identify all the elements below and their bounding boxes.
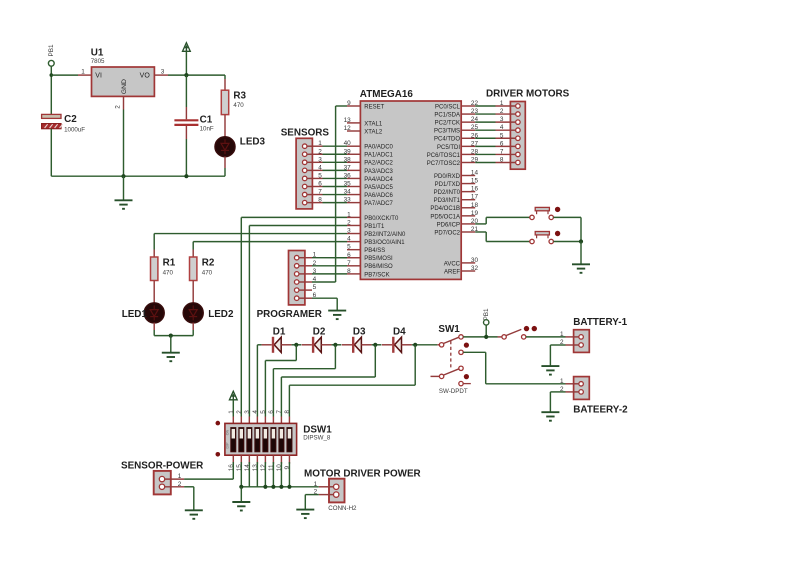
wire PD7 seg1 [475, 231, 486, 233]
diode D1 [273, 337, 281, 353]
wire sensor-power gnd seg2 [193, 487, 195, 511]
SW2 pole lead [498, 336, 502, 338]
button 2 indicator [555, 231, 560, 236]
R2 top pin [192, 250, 194, 258]
R1 top pin [153, 250, 155, 258]
U1 VO pin name [140, 73, 151, 80]
svg-text:PA2/ADC2: PA2/ADC2 [364, 161, 393, 167]
SW2 indicator a [524, 326, 529, 331]
svg-text:470: 470 [163, 269, 174, 276]
diode D3 [353, 337, 361, 353]
DSW1 marker dot bottom [216, 452, 221, 457]
resistor R2 [190, 257, 197, 281]
wire VO node down to C1 [185, 75, 187, 107]
DSW1 DIP text [226, 442, 230, 449]
DRIVER MOTORS pin 8 lead [496, 161, 516, 163]
DRIVER MOTORS pin 6 number [500, 140, 504, 147]
svg-text:13: 13 [344, 117, 352, 124]
SENSORS pin 5 circle [302, 176, 307, 181]
wire PB1 to C2 top [50, 67, 52, 115]
DRIVER MOTORS pin 7 circle [516, 152, 521, 157]
wire R2 to LED2 [192, 281, 194, 304]
MOTOR POWER pin1 circle [334, 484, 339, 489]
ATMEGA16 pin name PD7/OC2 [434, 230, 460, 236]
MOTOR POWER pin1 number [314, 481, 318, 488]
C1 refdes [200, 115, 213, 126]
DSW1 bottom pin 12 stub [264, 455, 266, 464]
SW1 value SW-DPDT [439, 388, 468, 395]
junction PB1 node [50, 73, 54, 77]
ATMEGA16 pin 8 (PB7/SCK) stub [347, 273, 360, 275]
ATMEGA16 pin 13 (XTAL1) stub [347, 122, 360, 124]
D1 anode lead [262, 344, 272, 346]
SW2 indicator b [532, 326, 537, 331]
power flag VCC top [183, 43, 191, 52]
svg-text:7: 7 [347, 260, 351, 267]
D4 refdes [393, 326, 406, 337]
svg-text:SENSOR-POWER: SENSOR-POWER [121, 460, 203, 471]
wire PB0 horizontal [241, 216, 347, 218]
ATMEGA16 pin 20 (PD6/ICP) stub [461, 223, 475, 225]
U1 pin 1 stub [78, 74, 92, 76]
BATTERY-1 title [573, 317, 627, 328]
DSW1 pin 12 number [260, 464, 267, 472]
svg-text:PC7/TOSC2: PC7/TOSC2 [427, 161, 461, 167]
svg-text:1: 1 [81, 68, 85, 75]
ground power section [115, 200, 133, 209]
svg-text:PD4/OC1B: PD4/OC1B [430, 206, 460, 212]
svg-text:1: 1 [347, 211, 351, 218]
wire PROGRAMER6 seg2 [336, 298, 338, 310]
wire SENSORS 7 to PA6 [323, 194, 348, 196]
SW1 mechanical link [450, 341, 452, 368]
ATMEGA16 pin 20 number [471, 218, 479, 225]
terminal PB1b label [483, 308, 490, 321]
power flag DSW [229, 391, 237, 400]
terminal PB1 [48, 60, 54, 66]
U1 pin 3 stub [154, 74, 168, 76]
PROGRAMER pin 6 circle [294, 296, 299, 301]
SW1 throw A circle [459, 335, 463, 339]
svg-text:18: 18 [471, 202, 479, 209]
LED1 refdes [122, 309, 148, 320]
terminal PB1 label [48, 44, 55, 57]
U1 pin 1 number [81, 68, 85, 75]
wire diode link 4 [412, 344, 437, 346]
button 1 indicator [555, 207, 560, 212]
svg-text:5: 5 [347, 244, 351, 251]
svg-text:PC6/TOSC1: PC6/TOSC1 [427, 153, 461, 159]
ATMEGA16 pin name PD5/OC1A [430, 214, 460, 220]
ATMEGA16 pin 40 (PA0/ADC0) stub [347, 145, 360, 147]
svg-text:3: 3 [318, 156, 322, 163]
svg-text:39: 39 [344, 148, 352, 155]
SENSOR-POWER pin1 number [178, 473, 182, 480]
ATMEGA16 pin name PD4/OC1B [430, 206, 460, 212]
wire battery2 gnd seg2 [549, 392, 551, 412]
SENSORS pin 5 number [318, 172, 322, 179]
ATMEGA16 pin 35 number [344, 181, 352, 188]
LED ground rail [154, 335, 193, 337]
svg-text:BATEERY-2: BATEERY-2 [573, 405, 628, 416]
DSW1 bottom pin 15 stub [240, 455, 242, 464]
SENSORS pin 1 circle [302, 144, 307, 149]
svg-text:5: 5 [500, 132, 504, 139]
wire PD6 seg3 [486, 216, 530, 218]
svg-text:4: 4 [318, 164, 322, 171]
connector SENSORS body [296, 138, 312, 209]
ATMEGA16 pin 16 number [471, 186, 479, 193]
svg-text:DIPSW_8: DIPSW_8 [303, 435, 331, 442]
ground battery1 [541, 366, 559, 375]
DRIVER MOTORS pin 6 lead [496, 145, 516, 147]
svg-text:3: 3 [161, 68, 165, 75]
D3 refdes [353, 326, 366, 337]
svg-text:3: 3 [244, 410, 251, 414]
wire C2 to rail [50, 129, 52, 177]
svg-text:D1: D1 [273, 326, 286, 337]
junction bus pin 9 [287, 485, 291, 489]
ATMEGA16 pin 29 number [471, 156, 479, 163]
ATMEGA16 pin 33 (PA7/ADC7) stub [347, 202, 360, 204]
DRIVER MOTORS pin 1 lead [496, 105, 516, 107]
DRIVER MOTORS pin 8 circle [516, 160, 521, 165]
D2 cathode lead [321, 344, 331, 346]
wire PROGRAMER1 to PB5 [312, 257, 347, 259]
PROGRAMER pin 3 circle [294, 272, 299, 277]
BATTERY-1 pin1 lead [566, 336, 580, 338]
DSW1 value [303, 435, 331, 442]
svg-text:30: 30 [471, 257, 479, 264]
BATTERY-1 pin1 number [560, 331, 564, 338]
wire battery1 gnd seg1 [550, 344, 565, 346]
PROGRAMER pin 2 number [313, 260, 317, 267]
ATMEGA16 pin 3 number [347, 228, 351, 235]
svg-text:PA0/ADC0: PA0/ADC0 [364, 145, 393, 151]
ATMEGA16 pin name PC6/TOSC1 [427, 153, 461, 159]
R3 value [233, 102, 244, 109]
R1 value [163, 269, 174, 276]
svg-text:SENSORS: SENSORS [281, 127, 330, 138]
wire SENSORS 8 to PA7 [323, 202, 348, 204]
svg-text:PA7/ADC7: PA7/ADC7 [364, 201, 393, 207]
wire LED2 to rail [192, 330, 194, 336]
svg-text:GND: GND [121, 79, 128, 94]
wire stair 4 column [288, 385, 290, 416]
regulator U1 body [92, 67, 155, 96]
D3 anode lead [342, 344, 352, 346]
DSW1 pin 15 number [236, 464, 243, 472]
junction rail-U1gnd [121, 174, 125, 178]
ATMEGA16 pin 19 number [471, 210, 479, 217]
DSW1 top pin 6 stub [272, 417, 274, 424]
SENSORS pin 4 number [318, 164, 322, 171]
DSW1 pin 9 number [284, 465, 291, 469]
ATMEGA16 pin 4 (PB3/OC0/AIN1) stub [347, 241, 360, 243]
svg-text:14: 14 [244, 464, 251, 472]
svg-text:3: 3 [347, 228, 351, 235]
C1 top pin [185, 107, 187, 119]
SENSORS pin 6 number [318, 181, 322, 188]
ATMEGA16 pin name PD3/INT1 [434, 198, 461, 204]
ATMEGA16 pin name PC7/TOSC2 [427, 161, 461, 167]
PROGRAMER pin 4 circle [294, 280, 299, 285]
capacitor C2 plate + [42, 114, 61, 118]
ground rail top-left [51, 175, 225, 177]
svg-text:LED2: LED2 [208, 309, 234, 320]
svg-text:R3: R3 [233, 90, 246, 101]
DRIVER MOTORS pin 4 lead [496, 129, 516, 131]
ATMEGA16 pin 23 (PC1/SDA) stub [461, 113, 475, 115]
ATMEGA16 pin 30 number [471, 257, 479, 264]
svg-text:2: 2 [500, 108, 504, 115]
svg-text:470: 470 [202, 269, 213, 276]
SW1 indicator 2 [464, 374, 469, 379]
ATMEGA16 pin 34 number [344, 189, 352, 196]
ATMEGA16 pin name PB2/INT2/AIN0 [364, 232, 406, 238]
ATMEGA16 pin 1 number [347, 211, 351, 218]
PROGRAMER pin 2 circle [294, 264, 299, 269]
wire sensor-power gnd seg1 [184, 486, 194, 488]
svg-text:17: 17 [471, 194, 479, 201]
DSW1 top pin 7 stub [280, 417, 282, 424]
svg-text:2: 2 [236, 410, 243, 414]
wire motor gnd seg1 [305, 494, 319, 496]
wire R2 vertical [192, 242, 194, 250]
DSW1 pin 2 number [236, 410, 243, 414]
ground battery2 [541, 412, 559, 421]
ATMEGA16 pin 27 number [471, 140, 479, 147]
svg-text:PB1/T1: PB1/T1 [364, 224, 385, 230]
wire stair 4 left [289, 384, 415, 386]
ATMEGA16 pin name PD1/TXD [435, 182, 461, 188]
svg-text:1: 1 [318, 140, 322, 147]
DSW1 pin 4 number [252, 410, 259, 414]
ATMEGA16 pin 37 (PA3/ADC3) stub [347, 169, 360, 171]
svg-text:CONN-H2: CONN-H2 [328, 505, 357, 512]
ATMEGA16 pin 24 (PC2/TCK) stub [461, 121, 475, 123]
wire R1 to LED1 [153, 281, 155, 304]
svg-text:11: 11 [268, 464, 275, 471]
ATMEGA16 pin name PB4/SS [364, 248, 385, 254]
wire PD6 seg2 [485, 217, 487, 224]
SENSORS pin 6 lead [307, 186, 323, 188]
wire PD7 seg3 [486, 241, 530, 243]
svg-text:PB7/SCK: PB7/SCK [364, 272, 389, 278]
wire PC3 to motors 4 [475, 129, 495, 131]
DRIVER MOTORS pin 5 circle [516, 136, 521, 141]
resistor R3 [221, 90, 228, 114]
junction diode node 3 [373, 343, 377, 347]
ground PROGRAMER [328, 311, 346, 320]
wire PROGRAMER2 to PB6 [312, 265, 347, 267]
PROGRAMER pin 2 lead [299, 265, 312, 267]
svg-text:34: 34 [344, 189, 352, 196]
LED LED1 [144, 303, 164, 323]
SENSORS pin 8 circle [302, 200, 307, 205]
SENSOR-POWER title [121, 460, 203, 471]
ATMEGA16 pin 12 (XTAL2) stub [347, 130, 360, 132]
ATMEGA16 pin name PA6/ADC6 [364, 193, 393, 199]
wire stair 1 left [265, 360, 296, 362]
capacitor C1 plates [174, 120, 198, 125]
wire battery1 gnd seg2 [549, 345, 551, 366]
DSW1 pin 6 number [268, 410, 275, 414]
SENSORS pin 4 circle [302, 168, 307, 173]
svg-text:14: 14 [471, 170, 479, 177]
ATMEGA16 pin 23 number [471, 108, 479, 115]
DSW1 switch slots [231, 428, 292, 452]
SENSORS pin 2 circle [302, 152, 307, 157]
ground LEDs [162, 353, 180, 362]
ATMEGA16 pin 25 number [471, 124, 479, 131]
DRIVER MOTORS title [486, 89, 570, 100]
SENSORS pin 7 circle [302, 192, 307, 197]
ATMEGA16 pin name PA1/ADC1 [364, 153, 393, 159]
ATMEGA16 pin name XTAL2 [364, 129, 383, 135]
ATMEGA16 pin name PA0/ADC0 [364, 145, 393, 151]
DRIVER MOTORS pin 1 number [500, 100, 504, 107]
svg-text:33: 33 [344, 197, 352, 204]
junction diode node 4 [413, 343, 417, 347]
wire stair 1 down [295, 345, 297, 361]
svg-text:10nF: 10nF [200, 125, 214, 132]
BATEERY-2 pin2 lead [566, 391, 580, 393]
DRIVER MOTORS pin 4 number [500, 124, 504, 131]
wire DSW10 down [280, 462, 282, 487]
svg-text:5: 5 [260, 410, 267, 414]
wire buttons vertical [580, 217, 582, 241]
ATMEGA16 pin name PA3/ADC3 [364, 169, 393, 175]
DRIVER MOTORS pin 4 circle [516, 128, 521, 133]
wire PB3 horizontal [193, 241, 347, 243]
DRIVER MOTORS pin 3 lead [496, 121, 516, 123]
SENSOR-POWER pin1 lead [165, 478, 185, 480]
ATMEGA16 pin 6 (PB5/MOSI) stub [347, 257, 360, 259]
svg-text:LED3: LED3 [240, 137, 266, 148]
svg-text:DIP: DIP [226, 442, 230, 449]
LED1 bottom pin [153, 323, 155, 330]
wire DSW14 down [248, 462, 250, 487]
ground buttons [572, 264, 590, 273]
svg-text:10: 10 [276, 464, 283, 472]
U1 refdes [91, 48, 104, 59]
DSW1 top pin 4 stub [256, 417, 258, 424]
wire PROGRAMER3 to PB7 [312, 273, 347, 275]
wire bus to ground [240, 487, 242, 502]
DRIVER MOTORS pin 6 circle [516, 144, 521, 149]
svg-text:PD6/ICP: PD6/ICP [437, 222, 460, 228]
wire PD7 seg2 [485, 232, 487, 242]
ATMEGA16 pin 8 number [347, 268, 351, 275]
ATMEGA16 pin name PB5/MOSI [364, 256, 393, 262]
wire SENSORS 6 to PA5 [323, 186, 348, 188]
DRIVER MOTORS pin 1 circle [516, 104, 521, 109]
wire LED1 to rail [153, 330, 155, 336]
svg-text:1: 1 [178, 473, 182, 480]
ATMEGA16 pin name PB0/XCK/T0 [364, 216, 399, 222]
wire DSW12 down [264, 462, 266, 487]
diode D4 [393, 337, 401, 353]
wire stair 3 column [280, 377, 282, 417]
C1 bottom pin [185, 126, 187, 139]
ATMEGA16 pin 28 number [471, 148, 479, 155]
wire SENSORS 2 to PA1 [323, 153, 348, 155]
wire stair 4 down [414, 345, 416, 385]
U1 value 7805 [91, 58, 105, 65]
LED3 bottom pin [224, 157, 226, 169]
DSW1 top pin 2 stub [240, 417, 242, 424]
ATMEGA16 pin 2 (PB1/T1) stub [347, 224, 360, 226]
DSW1 refdes [303, 424, 332, 435]
wire D1 left corner [257, 344, 261, 346]
svg-text:PROGRAMER: PROGRAMER [257, 309, 322, 320]
ground sensor-power [185, 510, 203, 519]
wire LED rail to ground [170, 336, 172, 353]
svg-text:RESET: RESET [364, 104, 384, 110]
LED3 refdes [240, 137, 266, 148]
PROGRAMER pin 1 number [313, 252, 317, 259]
svg-text:D2: D2 [313, 326, 326, 337]
junction diode node 1 [294, 343, 298, 347]
ATMEGA16 pin name AVCC [444, 261, 461, 267]
R3 top pin [224, 79, 226, 90]
junction buttons [579, 239, 583, 243]
svg-text:PB5/MOSI: PB5/MOSI [364, 256, 393, 262]
ATMEGA16 pin name PC5/TDI [437, 145, 460, 151]
SW2 throw circle [522, 335, 526, 339]
DSW1 pin 14 number [244, 464, 251, 472]
ATMEGA16 pin 25 (PC3/TMS) stub [461, 129, 475, 131]
ATMEGA16 pin 37 number [344, 164, 352, 171]
junction LED rail [169, 334, 173, 338]
ATMEGA16 pin 6 number [347, 252, 351, 259]
SENSOR-POWER pin2 circle [159, 484, 164, 489]
D4 anode lead [382, 344, 392, 346]
svg-text:4: 4 [347, 236, 351, 243]
PROGRAMER pin 4 number [313, 276, 317, 283]
connector DRIVER MOTORS body [510, 102, 525, 170]
svg-text:PD5/OC1A: PD5/OC1A [430, 214, 460, 220]
SW1 throw B circle [459, 350, 463, 354]
svg-text:PA4/ADC4: PA4/ADC4 [364, 177, 393, 183]
DSW1 pin 3 number [244, 410, 251, 414]
U1 pin 3 number [161, 68, 165, 75]
ATMEGA16 pin 21 (PD7/OC2) stub [461, 231, 475, 233]
MOTOR POWER pin1 lead [319, 486, 334, 488]
ATMEGA16 pin name XTAL1 [364, 121, 383, 127]
svg-text:6: 6 [347, 252, 351, 259]
ATMEGA16 pin 12 number [344, 125, 352, 132]
ATMEGA16 pin 3 (PB2/INT2/AIN0) stub [347, 233, 360, 235]
ATMEGA16 pin 38 number [344, 156, 352, 163]
svg-text:ON: ON [226, 429, 230, 435]
wire VCC to R3 corner [224, 75, 226, 79]
SENSOR-POWER pin1 circle [159, 476, 164, 481]
ATMEGA16 title [360, 89, 414, 100]
D3 cathode lead [361, 344, 371, 346]
wire PB1 to U1 VI [51, 74, 78, 76]
wire SENSORS 1 to PA0 [323, 145, 348, 147]
ATMEGA16 pin 35 (PA5/ADC5) stub [347, 186, 360, 188]
ground DSW [232, 502, 250, 511]
DSW1 top pin 1 stub [232, 417, 234, 424]
connector BATEERY-2 body [574, 377, 590, 400]
wire RESET vertical [335, 106, 337, 282]
wire PC2 to motors 3 [475, 121, 495, 123]
ATMEGA16 pin name PC2/TCK [435, 121, 460, 127]
svg-text:PA3/ADC3: PA3/ADC3 [364, 169, 393, 175]
